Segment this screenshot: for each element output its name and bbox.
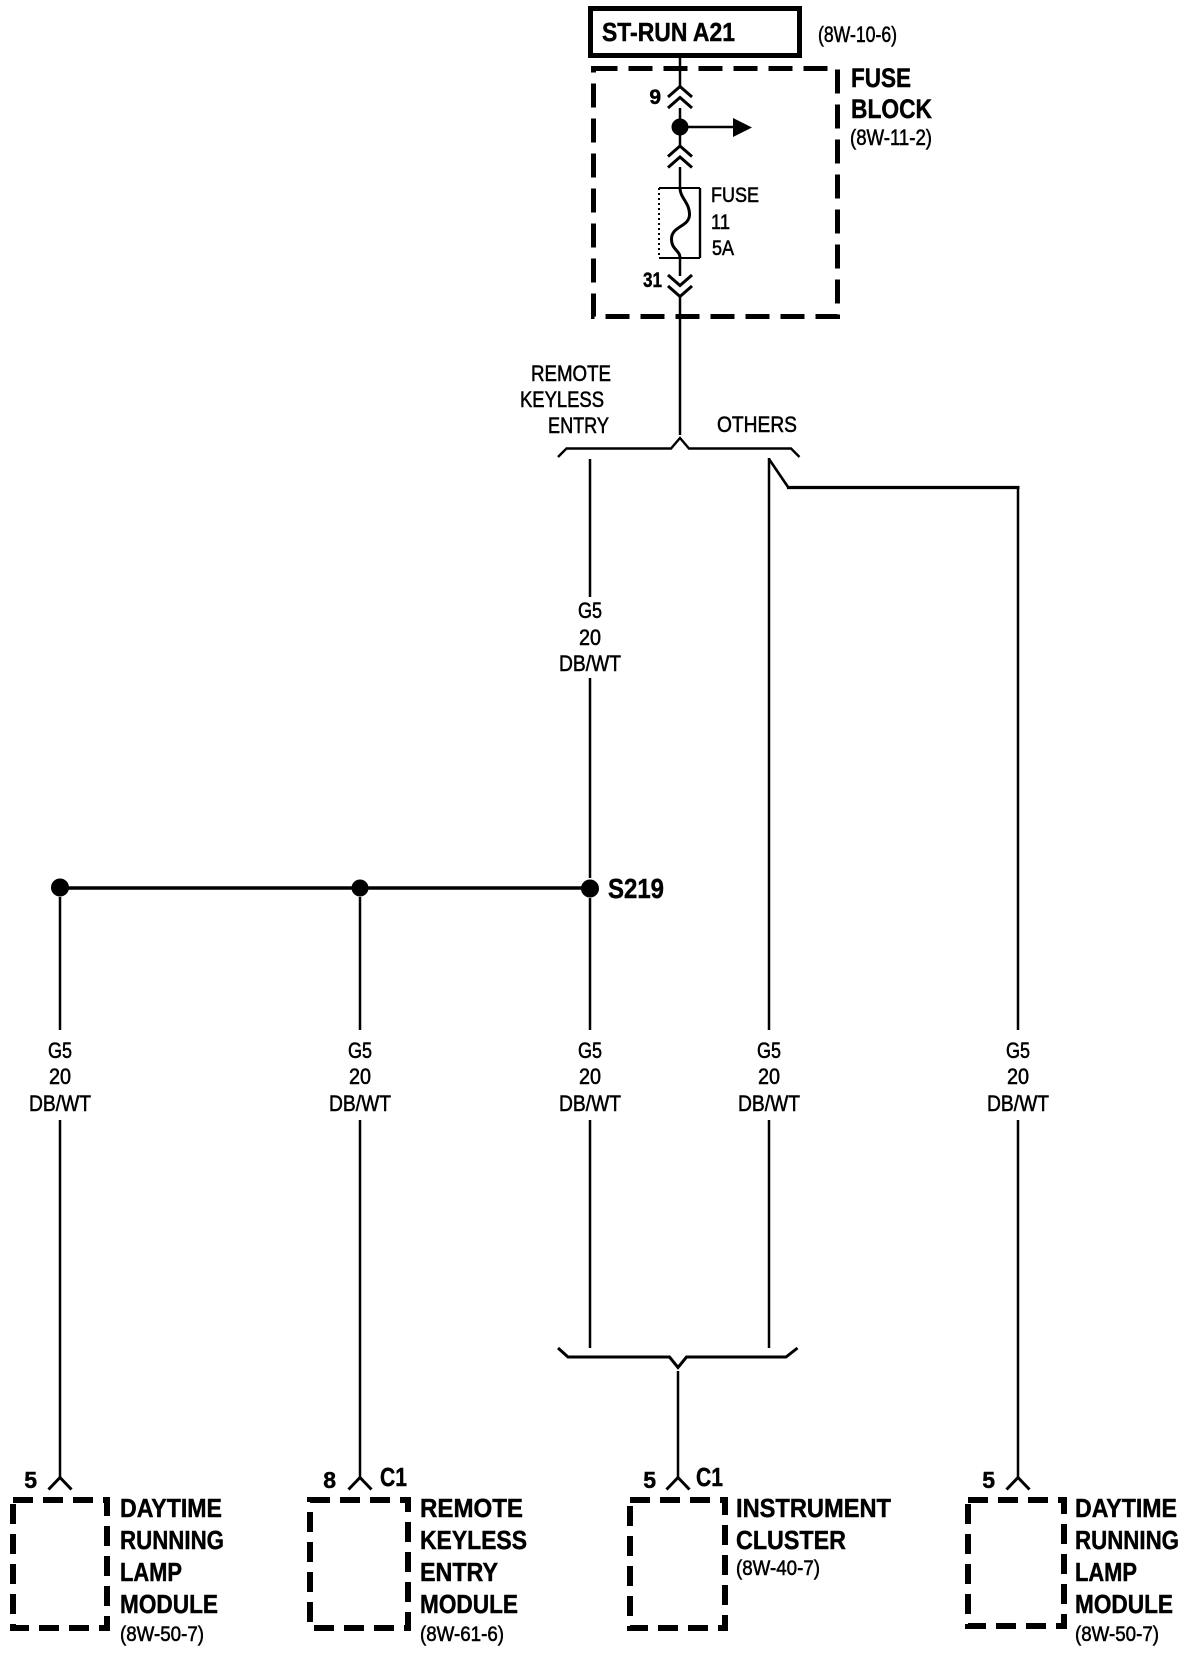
connector terminal 9 [649, 86, 692, 109]
wire OTHERS branch horizontal run [787, 486, 1020, 489]
wire from ST-RUN A21 into fuse block [679, 58, 682, 87]
svg-text:ST-RUN A21: ST-RUN A21 [602, 17, 735, 47]
svg-text:DB/WT: DB/WT [559, 651, 621, 676]
fuse 11 5A symbol [659, 188, 700, 258]
svg-text:G5: G5 [1006, 1038, 1030, 1063]
svg-text:KEYLESS: KEYLESS [520, 387, 604, 412]
instrument cluster label [736, 1495, 891, 1580]
distribution brace [558, 438, 800, 457]
wire label G5 20 DB/WT column 3 [559, 1038, 621, 1116]
svg-text:8: 8 [323, 1467, 336, 1493]
wire label G5 20 DB/WT column 5 [987, 1038, 1049, 1116]
wire RKE branch lower to splice [589, 678, 592, 878]
wire right branch down [1017, 487, 1020, 1030]
svg-text:FUSE: FUSE [711, 184, 759, 207]
wire leaving fuse block down to splice brace [679, 296, 682, 435]
svg-text:DB/WT: DB/WT [29, 1091, 91, 1116]
svg-text:(8W-50-7): (8W-50-7) [1075, 1623, 1159, 1646]
connector terminal 5 C1 (instrument cluster) [643, 1462, 723, 1493]
svg-text:MODULE: MODULE [120, 1591, 218, 1619]
wire column 1 lower [59, 1120, 62, 1477]
svg-text:DAYTIME: DAYTIME [1075, 1495, 1177, 1523]
svg-text:11: 11 [711, 211, 730, 234]
junction node in fuse block [672, 119, 689, 136]
wire label G5 20 DB/WT column 2 [329, 1038, 391, 1116]
svg-text:G5: G5 [757, 1038, 781, 1063]
svg-text:REMOTE: REMOTE [420, 1495, 523, 1523]
svg-text:(8W-11-2): (8W-11-2) [850, 125, 932, 150]
connector terminal 5 (DRL module left) [24, 1467, 71, 1493]
wire column 2 upper [359, 897, 362, 1030]
svg-text:MODULE: MODULE [420, 1591, 518, 1619]
daytime running lamp module right label [1075, 1495, 1179, 1646]
wire [679, 108, 682, 122]
svg-text:31: 31 [643, 269, 662, 292]
svg-text:5: 5 [982, 1467, 995, 1493]
wire label G5 20 DB/WT (RKE branch) [559, 598, 621, 676]
svg-text:(8W-61-6): (8W-61-6) [420, 1623, 504, 1646]
svg-text:S219: S219 [608, 873, 664, 904]
svg-text:G5: G5 [48, 1038, 72, 1063]
svg-text:C1: C1 [696, 1462, 723, 1492]
connector terminal (fuse input) [668, 146, 692, 168]
wire column 1 upper [59, 897, 62, 1030]
svg-text:DB/WT: DB/WT [559, 1091, 621, 1116]
wire column 2 lower [359, 1120, 362, 1477]
svg-text:BLOCK: BLOCK [851, 94, 932, 124]
svg-text:DB/WT: DB/WT [987, 1091, 1049, 1116]
wire [679, 167, 682, 190]
svg-text:INSTRUMENT: INSTRUMENT [736, 1495, 891, 1523]
wire RKE branch upper [589, 459, 592, 597]
splice S219 bus [60, 886, 590, 889]
branch label REMOTE KEYLESS ENTRY [520, 361, 611, 438]
svg-text:20: 20 [1007, 1064, 1029, 1089]
svg-text:5: 5 [643, 1467, 656, 1493]
svg-text:20: 20 [349, 1064, 371, 1089]
daytime running lamp module left box [13, 1500, 107, 1628]
svg-text:G5: G5 [578, 598, 602, 623]
connector terminal 5 (DRL module right) [982, 1467, 1029, 1493]
svg-text:G5: G5 [348, 1038, 372, 1063]
wire column 5 lower [1017, 1120, 1020, 1477]
wire [679, 258, 682, 276]
daytime running lamp module left label [120, 1495, 224, 1646]
fuse block dashed box [594, 69, 838, 317]
svg-text:CLUSTER: CLUSTER [736, 1527, 846, 1555]
svg-text:LAMP: LAMP [1075, 1559, 1137, 1587]
connector terminal 8 C1 (RKE module) [323, 1462, 407, 1493]
wire [679, 133, 682, 147]
svg-text:(8W-40-7): (8W-40-7) [736, 1557, 820, 1580]
splice dot left [51, 879, 69, 897]
arrow feed to other circuits [686, 118, 752, 137]
svg-text:DB/WT: DB/WT [329, 1091, 391, 1116]
svg-text:FUSE: FUSE [851, 63, 911, 93]
wire column 4 lower to merge brace [768, 1120, 771, 1348]
svg-text:RUNNING: RUNNING [120, 1527, 224, 1555]
wire merged output [677, 1371, 680, 1477]
svg-text:(8W-50-7): (8W-50-7) [120, 1623, 204, 1646]
wire column 3 lower to merge brace [589, 1120, 592, 1348]
daytime running lamp module right box [968, 1500, 1064, 1626]
wire OTHERS branch vertical [768, 458, 771, 1030]
svg-text:5: 5 [24, 1467, 37, 1493]
svg-text:20: 20 [49, 1064, 71, 1089]
svg-text:9: 9 [649, 86, 661, 109]
instrument cluster box [630, 1500, 725, 1628]
svg-text:DAYTIME: DAYTIME [120, 1495, 222, 1523]
wire column 3 upper [589, 898, 592, 1030]
svg-text:LAMP: LAMP [120, 1559, 182, 1587]
wire OTHERS branch diagonal [769, 459, 788, 487]
svg-text:C1: C1 [380, 1462, 407, 1492]
svg-text:MODULE: MODULE [1075, 1591, 1173, 1619]
svg-text:OTHERS: OTHERS [717, 412, 797, 437]
svg-text:G5: G5 [578, 1038, 602, 1063]
svg-text:20: 20 [579, 625, 601, 650]
wire label G5 20 DB/WT column 1 [29, 1038, 91, 1116]
remote keyless entry module box [310, 1500, 408, 1628]
svg-text:RUNNING: RUNNING [1075, 1527, 1179, 1555]
power feed box ST-RUN A21 [591, 9, 800, 56]
svg-text:20: 20 [579, 1064, 601, 1089]
remote keyless entry module label [420, 1495, 527, 1646]
svg-text:REMOTE: REMOTE [531, 361, 611, 386]
connector terminal 31 [643, 269, 692, 297]
svg-text:ENTRY: ENTRY [548, 413, 609, 438]
svg-text:KEYLESS: KEYLESS [420, 1527, 527, 1555]
svg-text:DB/WT: DB/WT [738, 1091, 800, 1116]
merge brace to instrument cluster [558, 1348, 798, 1368]
fuse value label [711, 184, 759, 260]
splice dot S219 [581, 880, 599, 898]
svg-text:ENTRY: ENTRY [420, 1559, 498, 1587]
FUSE BLOCK label [850, 63, 932, 150]
svg-text:20: 20 [758, 1064, 780, 1089]
splice dot middle [352, 880, 369, 897]
svg-text:(8W-10-6): (8W-10-6) [818, 22, 897, 47]
svg-text:5A: 5A [712, 237, 734, 260]
wire label G5 20 DB/WT column 4 [738, 1038, 800, 1116]
